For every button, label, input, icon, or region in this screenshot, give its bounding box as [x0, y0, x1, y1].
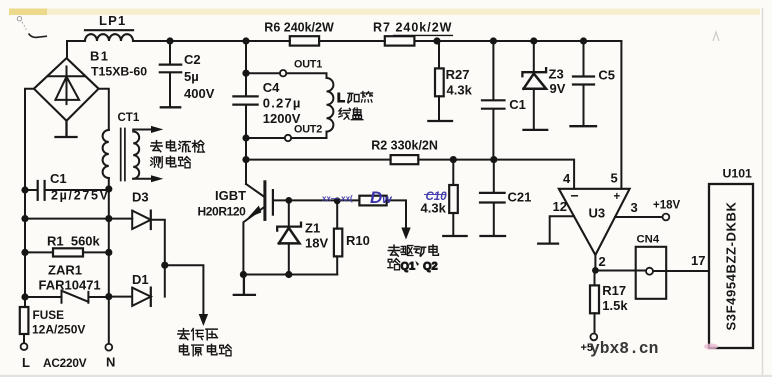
svg-text:400V: 400V: [184, 86, 215, 101]
svg-text:L: L: [337, 90, 345, 105]
svg-text:D3: D3: [132, 190, 149, 205]
resistor R7: [385, 36, 415, 45]
CJK annotation: to drive circuit Q1 Q2: [388, 245, 439, 273]
terminal +5V: [590, 334, 597, 341]
resistor 4.3k (divider): [452, 160, 454, 236]
svg-text:IGBT: IGBT: [215, 188, 246, 203]
pin 2 wire: [594, 255, 596, 270]
svg-text:R17: R17: [602, 283, 626, 298]
svg-text:S3F4954BZZ-DKBK: S3F4954BZZ-DKBK: [724, 202, 739, 331]
svg-text:R6 240k/2W: R6 240k/2W: [264, 21, 334, 35]
wire gate row: [274, 200, 406, 228]
ground below Z3: [524, 129, 548, 131]
svg-text:4.3k: 4.3k: [447, 83, 473, 98]
junction L rail / ZAR1: [21, 293, 28, 300]
wire N rail: [108, 178, 110, 344]
svg-text:Q1: Q1: [401, 261, 416, 273]
gate resistor: [359, 196, 386, 206]
svg-text:B1: B1: [90, 49, 109, 64]
svg-text:C10: C10: [426, 191, 448, 203]
svg-text:5µ: 5µ: [184, 69, 199, 84]
terminal L: [21, 343, 28, 350]
svg-text:R27: R27: [446, 67, 470, 82]
junction C4 / OUT1: [242, 70, 249, 77]
svg-text:17: 17: [691, 253, 705, 268]
resistor R17: [594, 270, 596, 333]
diode D1: [109, 288, 151, 306]
junction N rail / C1: [105, 185, 112, 192]
R7 label underline: [393, 34, 453, 36]
terminal +18V: [663, 214, 670, 221]
capacitor C1 (mains): [25, 189, 109, 191]
svg-text:xx—.xx(: xx—.xx(: [322, 194, 353, 203]
junction gate / Z1: [285, 197, 292, 204]
svg-text:FUSE: FUSE: [33, 308, 65, 322]
svg-text:Z1: Z1: [305, 221, 320, 236]
CT1 arrow top: [151, 126, 163, 133]
capacitor C1 (filter): [492, 41, 494, 160]
IC U101 box: [709, 184, 753, 348]
ground below 4.3k: [443, 235, 466, 237]
ground below bridge: [56, 121, 77, 137]
svg-text:12A/250V: 12A/250V: [32, 323, 85, 337]
heating coil L: [327, 78, 334, 132]
ground below C2: [161, 106, 180, 108]
wire R2 row: [246, 160, 574, 189]
ground below emitter: [234, 275, 255, 295]
zener Z1: [288, 200, 290, 226]
CJK annotation: heating coil: [337, 90, 373, 120]
pin 5 wire: [620, 41, 622, 189]
svg-text:T15XB-60: T15XB-60: [91, 65, 147, 79]
svg-text:18V: 18V: [305, 236, 328, 251]
ground below R27: [428, 120, 452, 122]
wire bridge left to rail: [25, 89, 34, 307]
svg-text:CT1: CT1: [118, 112, 140, 124]
svg-text:AC220V: AC220V: [43, 356, 87, 370]
node C4 column: [245, 41, 247, 184]
ground pin12: [538, 242, 558, 244]
svg-text:4: 4: [563, 171, 571, 186]
varistor ZAR1: [25, 290, 109, 302]
svg-text:C5: C5: [598, 68, 615, 83]
junction emitter rail / ground: [240, 271, 247, 278]
junction N rail / R1: [105, 249, 112, 256]
svg-text:D1: D1: [132, 272, 149, 287]
svg-text:Q2: Q2: [423, 261, 438, 273]
svg-text:C1: C1: [50, 171, 67, 186]
svg-text:1.5k: 1.5k: [602, 298, 628, 313]
IGBT Q: [246, 184, 264, 197]
wire bridge right to N rail: [99, 89, 109, 130]
svg-text:OUT1: OUT1: [294, 58, 322, 70]
svg-text:+: +: [614, 191, 621, 203]
svg-text:3: 3: [631, 200, 638, 215]
svg-text:FAR10471: FAR10471: [39, 278, 101, 293]
svg-text:CN4: CN4: [637, 234, 660, 246]
junction gate / R10: [334, 197, 341, 204]
svg-text:C1: C1: [509, 97, 526, 112]
junction U3 pin2 / R17 / CN4: [592, 267, 599, 274]
junction R2 wire / C21: [490, 156, 497, 163]
wire bridge top stem: [66, 41, 68, 58]
wire D3 row: [25, 218, 132, 220]
low-voltage arrow: [199, 314, 208, 326]
svg-text:LP1: LP1: [99, 13, 126, 28]
bridge rectifier B1: [34, 58, 99, 121]
pen scribble top-left: [17, 17, 27, 32]
junction top rail / Z3: [530, 37, 537, 44]
diode D3: [132, 211, 151, 229]
junction D3-D1 / low-volt tap: [161, 262, 168, 269]
svg-text:R10: R10: [346, 233, 370, 248]
junction top rail / C5: [580, 37, 587, 44]
junction C4 / OUT2: [242, 134, 249, 141]
junction top rail / C4: [242, 37, 249, 44]
svg-text:5: 5: [611, 171, 618, 186]
junction top rail / R27: [433, 37, 440, 44]
svg-text:C4: C4: [263, 80, 280, 95]
connector CN4: [636, 247, 667, 299]
wire pin2 to CN4 to U101: [595, 270, 709, 273]
watermark blue over gate resistor: [322, 188, 392, 207]
svg-text:−: −: [571, 188, 579, 204]
resistor R27: [438, 41, 440, 120]
resistor R1: [53, 248, 83, 256]
svg-text:2µ/275V: 2µ/275V: [51, 189, 110, 203]
svg-text:12: 12: [553, 199, 567, 214]
zener Z3: [533, 41, 535, 72]
terminal OUT1: [280, 70, 286, 76]
pink smudge: [704, 344, 718, 350]
op-amp U3: [559, 189, 630, 255]
inductor LP1: [85, 29, 133, 31]
junction C4 / R2: [242, 156, 249, 163]
fuse FUSE: [20, 307, 29, 334]
capacitor C21: [493, 160, 495, 236]
drive arrow: [401, 228, 410, 240]
wire OUT1: [246, 73, 327, 78]
IGBT emitter arrow: [248, 206, 262, 218]
ground below C21: [481, 235, 506, 237]
svg-text:2: 2: [599, 254, 606, 269]
CJK annotation: to current-detect circuit: [151, 140, 205, 168]
wire OUT2: [246, 132, 327, 138]
svg-text:ybx8.cn: ybx8.cn: [590, 339, 658, 358]
pin 3 wire: [615, 216, 662, 218]
page right edge line: [762, 8, 764, 377]
terminal OUT2: [285, 135, 291, 141]
svg-text:+18V: +18V: [653, 200, 681, 212]
page bottom edge: [0, 375, 772, 377]
svg-text:C21: C21: [508, 190, 532, 205]
yellow top strip: [9, 9, 760, 16]
arrows: [151, 126, 411, 326]
resistor R10: [336, 201, 338, 275]
pin 12 wire: [550, 216, 574, 243]
junction N rail / D1: [105, 293, 112, 300]
wire R1 row: [25, 251, 109, 253]
transformer CT1 primary: [103, 130, 109, 178]
svg-text:Z3: Z3: [549, 67, 564, 82]
terminal N: [105, 344, 112, 351]
svg-text:L: L: [22, 355, 30, 370]
junction emitter rail / Z1: [285, 271, 292, 278]
svg-text:9V: 9V: [550, 81, 566, 96]
transformer CT1 secondary: [133, 132, 139, 179]
svg-text:0.27µ: 0.27µ: [263, 96, 302, 111]
svg-text:C2: C2: [184, 52, 201, 67]
junction top rail / C2: [166, 37, 173, 44]
wire emitter rail: [243, 274, 337, 276]
svg-text:N: N: [106, 355, 115, 370]
junction L rail / C1: [21, 186, 28, 193]
svg-text:OUT2: OUT2: [294, 123, 322, 135]
wire top rail: [67, 40, 621, 42]
faint pen mark top right: [713, 32, 719, 41]
CJK annotation: to low-voltage supply circuit: [178, 328, 231, 356]
svg-text:ZAR1: ZAR1: [48, 263, 82, 278]
junction top rail / C1: [490, 37, 497, 44]
junction L rail / R1: [21, 249, 28, 256]
junction R2 wire / 4.3k: [450, 156, 457, 163]
capacitor C4: [233, 96, 257, 104]
capacitor C2: [169, 41, 171, 107]
junction N rail / D3: [105, 215, 112, 222]
resistor R6: [290, 36, 319, 45]
ground below C5: [571, 125, 597, 127]
svg-text:R2 330k/2N: R2 330k/2N: [371, 139, 438, 153]
svg-text:R7 240k/2W: R7 240k/2W: [373, 21, 452, 35]
wire D-junction to low-voltage arrow: [165, 265, 204, 317]
CT1 arrow bottom: [151, 175, 163, 182]
svg-text:H20R120: H20R120: [198, 205, 247, 219]
capacitor C5: [583, 41, 585, 126]
svg-text:U3: U3: [589, 206, 606, 221]
transformer CT1 core: [121, 129, 125, 181]
resistor R2: [391, 155, 419, 164]
svg-text:U101: U101: [723, 167, 753, 181]
junction L rail / D3 row: [21, 215, 28, 222]
svg-text:R1 560k: R1 560k: [47, 234, 101, 249]
